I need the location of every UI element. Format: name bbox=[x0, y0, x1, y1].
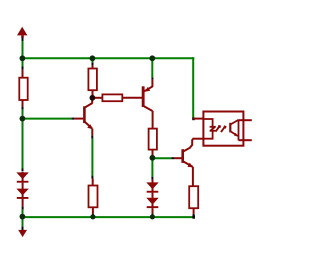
resistor R5 right lead to Q2 base bbox=[122, 97, 142, 99]
transistor Q2 collector bbox=[144, 106, 152, 111]
diode D4 bbox=[146, 193, 158, 217]
resistor R3 bbox=[89, 186, 98, 208]
resistor R5 bbox=[102, 94, 122, 101]
transistor Q1 base bar bbox=[83, 106, 86, 123]
resistor R3 leads bbox=[91, 176, 93, 179]
opto U1 pin 4 lead (collector, top-right) bbox=[239, 119, 252, 121]
resistor R2 leads bbox=[92, 59, 94, 63]
diode D2 bbox=[16, 183, 28, 210]
resistor R4 bbox=[149, 129, 157, 150]
wire Q1 base bbox=[22, 118, 72, 120]
resistor R5 left lead bbox=[93, 97, 102, 99]
node G (bottom rail / left column) bbox=[20, 214, 26, 220]
node J (rail end / R6) black tip bbox=[192, 215, 195, 218]
wire D2 to bottom rail bbox=[22, 210, 24, 218]
diode D3 bbox=[146, 158, 158, 193]
transistor Q1 collector bbox=[91, 98, 93, 103]
node D (Q1 base tap) bbox=[20, 116, 26, 122]
node E (R2 / Q1 collector / R5 junction) bbox=[90, 95, 96, 101]
opto-coupler U1 box bbox=[203, 112, 243, 146]
node I (bottom rail / diode column) bbox=[150, 214, 155, 219]
node corner black tip at opto pin bbox=[192, 117, 195, 120]
opto U1 light arrows bbox=[216, 125, 227, 132]
opto U1 LED diode glyph bbox=[210, 126, 216, 132]
resistor R1 leads bbox=[22, 67, 24, 70]
transistor Q3 base bar bbox=[181, 149, 184, 163]
node C (rail / Q2 emitter column) bbox=[149, 55, 155, 61]
power symbol VEE arrow (down) bbox=[18, 218, 27, 237]
transistor Q2 emitter (PNP arrow toward bar) bbox=[144, 87, 152, 92]
resistor R2 bbox=[88, 69, 97, 91]
opto U1 pin 2 lead (cathode, bottom-left) bbox=[193, 138, 204, 140]
transistor Q1 base lead bbox=[74, 118, 83, 120]
wire Q2 emitter up to rail bbox=[151, 57, 153, 77]
transistor Q1 emitter bbox=[85, 122, 92, 129]
wire vcc stem bbox=[22, 41, 24, 67]
transistor Q3 collector bbox=[184, 139, 193, 151]
wire top rail bbox=[22, 57, 195, 59]
node B (rail / R2 column) bbox=[90, 55, 96, 61]
wire Q1 emitter to R3 bbox=[91, 139, 93, 176]
resistor R1 bbox=[19, 78, 27, 100]
wire Q3 base bbox=[152, 157, 171, 159]
opto U1 phototransistor bbox=[229, 119, 238, 140]
node H (bottom rail / R3) bbox=[90, 214, 95, 219]
transistor Q2 base bar bbox=[142, 86, 145, 107]
power symbol VCC arrow (up) bbox=[17, 27, 27, 41]
node F (R4 / Q3 base / diode column junction) bbox=[150, 155, 156, 161]
diode D1 bbox=[16, 169, 28, 183]
wire A mid bbox=[22, 110, 24, 169]
opto U1 pin 3 lead (emitter, bottom-right) bbox=[239, 139, 252, 141]
wire top-right drop to opto bbox=[192, 57, 194, 117]
resistor R6 bbox=[189, 186, 198, 208]
node A (rail / R1 column) bbox=[20, 55, 26, 61]
opto U1 pin 1 lead (anode, top-left) bbox=[193, 118, 203, 120]
wire bottom rail bbox=[22, 216, 195, 218]
opto U1 LED frame bbox=[204, 119, 213, 139]
transistor Q3 emitter bbox=[184, 162, 193, 167]
